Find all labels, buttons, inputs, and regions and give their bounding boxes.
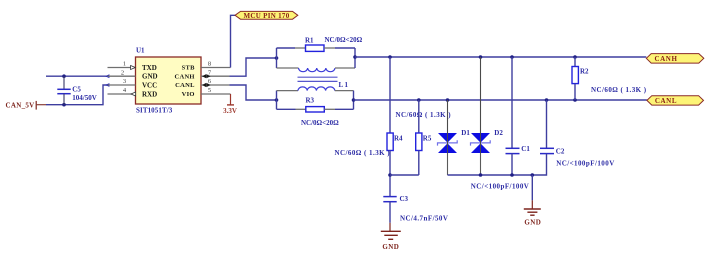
svg-text:STB: STB — [182, 65, 196, 72]
wire right node vertical (top loop) — [354, 48, 356, 68]
resistor R4 — [387, 133, 393, 151]
wire R3 row left — [277, 108, 296, 110]
svg-text:VIO: VIO — [182, 91, 195, 98]
wire R4 bottom to C3 — [389, 151, 391, 197]
wire left node vertical (top loop) — [276, 48, 278, 68]
svg-text:104/50V: 104/50V — [72, 94, 97, 102]
wire R1 row left — [277, 47, 296, 49]
svg-text:CANH: CANH — [174, 73, 194, 80]
svg-text:GND: GND — [142, 73, 158, 81]
wire CAN_5V horizontal to VCC jog — [46, 85, 108, 105]
svg-text:U1: U1 — [136, 47, 145, 55]
svg-text:CANH: CANH — [654, 55, 677, 63]
junction CANL/R2 — [573, 98, 577, 102]
wire R1 row right — [324, 47, 335, 49]
svg-text:CANL: CANL — [175, 82, 195, 89]
svg-text:GND: GND — [382, 243, 399, 251]
wire pin8 to MCU flag — [231, 15, 236, 67]
svg-text:NC/0Ω<20Ω: NC/0Ω<20Ω — [325, 36, 363, 44]
U1 pin 6 CANL — [201, 78, 230, 87]
U1 pin 2 GND — [108, 69, 136, 76]
svg-text:5: 5 — [208, 87, 211, 94]
svg-text:CAN_5V: CAN_5V — [6, 101, 35, 109]
svg-text:R5: R5 — [423, 135, 432, 143]
svg-text:D1: D1 — [461, 129, 470, 137]
TVS diode D1 — [438, 133, 458, 153]
resistor R1 — [306, 45, 325, 51]
svg-text:L 1: L 1 — [339, 81, 349, 89]
svg-text:NC/4.7nF/50V: NC/4.7nF/50V — [400, 214, 448, 222]
wire right node vertical (bottom loop) — [353, 91, 355, 110]
wire CANH net — [355, 56, 646, 58]
wire CANH to D2 — [480, 57, 482, 133]
svg-text:NC/<100pF/100V: NC/<100pF/100V — [471, 183, 530, 191]
U1 pin 8 STB — [201, 61, 231, 68]
wire CANH to R2 — [574, 57, 576, 67]
svg-text:NC/0Ω<20Ω: NC/0Ω<20Ω — [301, 119, 339, 127]
wire left node vertical (bottom loop) — [276, 91, 278, 110]
capacitor C1 — [506, 148, 520, 175]
junction CANL/C2 — [545, 98, 549, 102]
wire CANH to C1 — [511, 57, 513, 148]
svg-text:R1: R1 — [305, 36, 314, 44]
svg-text:C2: C2 — [556, 148, 565, 156]
junction bus/GND drop — [531, 173, 535, 177]
svg-text:NC/<100pF/100V: NC/<100pF/100V — [556, 159, 615, 167]
wire CANL net — [354, 99, 647, 101]
wire CANH to R4 — [389, 57, 391, 133]
wire CANL to R5 — [418, 100, 420, 133]
svg-text:TXD: TXD — [142, 64, 157, 72]
svg-text:NC/60Ω ( 1.3K ): NC/60Ω ( 1.3K ) — [335, 149, 391, 157]
capacitor C3 — [383, 197, 396, 223]
U1 pin 7 CANH — [201, 69, 230, 78]
junction left top node — [275, 56, 279, 60]
U1 pin 5 VIO — [201, 87, 231, 94]
svg-text:R2: R2 — [580, 68, 589, 76]
wire R2 to CANL — [574, 84, 576, 100]
junction CANL/D1 — [446, 98, 450, 102]
ground GND (under C3) — [381, 223, 401, 251]
svg-text:D2: D2 — [494, 129, 503, 137]
svg-text:8: 8 — [208, 61, 211, 68]
wire-end arrow at pin 2 — [105, 74, 109, 78]
port flag CANH — [646, 54, 704, 64]
ground GND (bus) — [524, 200, 541, 226]
svg-text:C3: C3 — [400, 195, 409, 203]
junction right top node — [353, 55, 357, 59]
svg-text:NC/60Ω ( 1.3K ): NC/60Ω ( 1.3K ) — [591, 86, 647, 94]
wire ground bus (D1,D2,C1,C2) — [448, 154, 547, 175]
svg-text:VCC: VCC — [142, 82, 157, 90]
wire CANL to C2 — [546, 100, 548, 148]
wire R4-R5 bottom bar — [390, 174, 419, 176]
wire CAN_5V stub (port to net) — [36, 104, 46, 106]
net label CAN_5V — [6, 101, 37, 110]
wire R5 bottom to bar — [418, 151, 420, 176]
junction bus/D2 — [479, 173, 483, 177]
wire GND net to pin 2 — [46, 75, 107, 77]
resistor R5 — [416, 133, 422, 151]
junction C5 top — [62, 74, 66, 78]
junction CANH/D2 — [479, 55, 483, 59]
capacitor C5 — [57, 76, 70, 105]
resistor R2 — [572, 67, 578, 84]
inductor L1 bottom winding — [277, 87, 354, 91]
junction R4/R5 bar — [388, 173, 392, 177]
wire-end arrow at pin 3 — [105, 83, 109, 87]
U1 pin 1 TXD — [108, 61, 136, 70]
TVS diode D2 — [471, 133, 491, 153]
port flag CANL — [647, 96, 704, 105]
svg-text:SIT1051T/3: SIT1051T/3 — [136, 106, 173, 114]
svg-text:GND: GND — [524, 219, 541, 227]
junction C5 bottom — [62, 103, 66, 107]
svg-text:NC/60Ω ( 1.3K ): NC/60Ω ( 1.3K ) — [396, 111, 452, 119]
inductor L1 core — [298, 77, 338, 81]
junction right bottom node — [352, 98, 356, 102]
svg-text:RXD: RXD — [142, 91, 157, 99]
svg-text:3.3V: 3.3V — [223, 107, 237, 115]
svg-text:C5: C5 — [72, 86, 81, 94]
wire D2 to gnd bus — [480, 153, 482, 175]
power port 3.3V — [223, 94, 237, 115]
port flag MCU PIN 170 — [235, 11, 298, 20]
svg-text:R4: R4 — [394, 135, 403, 143]
svg-text:C1: C1 — [521, 145, 530, 153]
svg-text:2: 2 — [121, 69, 124, 76]
svg-text:MCU PIN 170: MCU PIN 170 — [243, 12, 289, 20]
wire bus to GND — [531, 175, 533, 200]
wire CANL to D1 — [447, 100, 449, 133]
wire pin6 to choke left bottom node — [230, 85, 277, 100]
svg-text:CANL: CANL — [655, 97, 677, 105]
inductor L1 (common-mode choke) top winding — [277, 68, 356, 72]
svg-text:1: 1 — [123, 61, 126, 68]
wire R3 row right — [324, 108, 335, 110]
svg-text:3: 3 — [123, 78, 126, 85]
junction CANH/R2 — [573, 55, 577, 59]
U1 pin 3 VCC — [108, 78, 136, 85]
wire D1 to gnd bus — [447, 153, 449, 175]
wire pin7 to choke left top node — [230, 58, 277, 76]
junction CANL/R5 — [417, 98, 421, 102]
resistor R3 — [306, 107, 325, 112]
junction CANH/C1 — [510, 55, 514, 59]
svg-text:R3: R3 — [306, 96, 315, 104]
IC U1 SIT1051T/3 — [136, 47, 202, 115]
junction bus/C1 — [510, 173, 514, 177]
capacitor C2 — [540, 148, 554, 153]
junction left bottom node — [275, 98, 279, 102]
U1 pin 4 RXD — [108, 87, 136, 96]
junction CANH/R4 — [388, 55, 392, 59]
